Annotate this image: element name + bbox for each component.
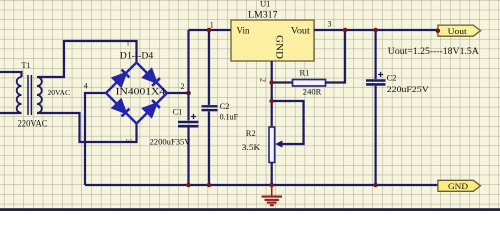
svg-text:C2: C2: [220, 101, 230, 111]
node bridge plus junction: [186, 91, 191, 96]
sheet border bottom band: [0, 208, 500, 211]
wire top rail to regulator: [189, 29, 232, 31]
wire secondary bottom to bridge bottom: [37, 113, 137, 142]
svg-text:3: 3: [124, 139, 133, 143]
transformer T1: [0, 72, 42, 115]
svg-text:3.5K: 3.5K: [242, 142, 261, 152]
svg-text:GND: GND: [274, 35, 284, 59]
resistor R1: [293, 80, 326, 87]
node R1/output junction: [343, 28, 348, 33]
svg-text:4: 4: [84, 81, 88, 90]
svg-text:Uout: Uout: [448, 26, 468, 36]
wire primary top stub: [0, 72, 22, 77]
svg-text:2: 2: [181, 82, 185, 91]
node C3/ground junction: [373, 183, 378, 188]
node adj junction: [269, 80, 274, 85]
diode D (bottom-left arm): [113, 100, 125, 112]
wire R2 wiper loop: [272, 101, 304, 144]
wire secondary top to bridge top: [37, 41, 137, 77]
svg-text:1: 1: [127, 42, 130, 48]
svg-text:Uout=1.25----18V1.5A: Uout=1.25----18V1.5A: [388, 46, 480, 56]
svg-text:R2: R2: [246, 128, 256, 138]
wire output rail: [314, 29, 438, 31]
svg-text:Vin: Vin: [237, 26, 250, 36]
node wiper junction: [269, 99, 274, 104]
op-amp U1 LM317 regulator: [231, 20, 314, 61]
node 1 junction: [207, 28, 212, 33]
wire adj pin down: [271, 61, 273, 127]
svg-text:U1: U1: [260, 0, 270, 9]
wire C2 branch vertical: [208, 30, 210, 185]
bridge rectifier D1-D4: [106, 63, 167, 124]
svg-text:220uF25V: 220uF25V: [387, 84, 430, 94]
node C3/output junction: [373, 28, 378, 33]
wire ground rail: [85, 184, 438, 186]
svg-text:3: 3: [328, 19, 332, 28]
resistor R2 (variable): [269, 127, 275, 163]
node C2/ground junction: [207, 183, 212, 188]
wire primary bottom stub: [0, 112, 22, 114]
diode D (bottom-right arm): [144, 104, 156, 116]
wire R2 bottom: [271, 163, 273, 186]
svg-text:C1: C1: [173, 106, 183, 116]
node output tag junction: [436, 28, 441, 33]
R2 wiper arrowhead: [275, 140, 282, 147]
svg-text:220VAC: 220VAC: [18, 119, 48, 129]
transformer T1 primary winding: [17, 77, 22, 113]
wire bridge minus to ground rail: [85, 93, 106, 185]
wire R1 right riser: [326, 30, 346, 83]
svg-text:1: 1: [210, 21, 214, 30]
wire C3 branch vertical: [375, 30, 377, 185]
transformer T1 secondary winding: [37, 77, 42, 113]
svg-text:20VAC: 20VAC: [48, 88, 71, 97]
svg-text:R1: R1: [300, 67, 310, 77]
power port Uout tag: [438, 25, 481, 36]
svg-text:Vout: Vout: [291, 26, 311, 36]
svg-text:LM317: LM317: [248, 10, 278, 20]
svg-text:240R: 240R: [303, 86, 322, 96]
svg-text:0.1uF: 0.1uF: [220, 111, 239, 121]
wire C1 branch vertical: [187, 30, 189, 185]
svg-text:IN4001X4: IN4001X4: [116, 87, 166, 97]
power port GND tag: [438, 180, 481, 191]
transformer T1 core: [28, 75, 31, 115]
wire bridge plus output: [167, 92, 189, 94]
wire R1 left: [272, 81, 293, 83]
diode D (top-right arm): [144, 70, 156, 82]
capacitor C1: [178, 114, 199, 126]
svg-text:D1---D4: D1---D4: [120, 51, 154, 61]
capacitor C3: [366, 72, 386, 85]
svg-text:T1: T1: [22, 61, 31, 70]
diode D (top-left arm): [113, 74, 125, 86]
capacitor C2: [202, 106, 218, 110]
svg-text:C2: C2: [387, 72, 397, 82]
ground symbol: [262, 185, 283, 205]
node C1/ground junction: [186, 183, 191, 188]
svg-text:2200uF35V: 2200uF35V: [150, 136, 192, 146]
node R2/ground junction: [269, 183, 274, 188]
svg-text:2: 2: [258, 78, 267, 82]
svg-text:GND: GND: [448, 181, 468, 191]
